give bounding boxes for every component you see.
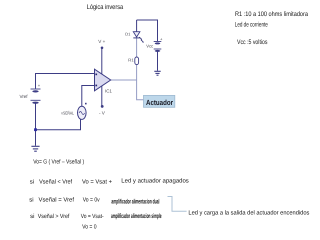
svg-text:V +: V + <box>98 39 105 44</box>
label + of source <box>85 103 87 105</box>
svg-text:Led y carga a la salida del ac: Led y carga a la salida del actuador enc… <box>188 209 309 216</box>
svg-text:amplificador alimentacion dual: amplificador alimentacion dual <box>111 198 159 205</box>
wire Vref bottom to ground rail <box>35 103 37 146</box>
pin dot V+ <box>101 47 104 50</box>
pin dot -V <box>101 105 104 108</box>
resistor R1 <box>135 57 139 65</box>
svg-text:Vref: Vref <box>20 94 29 99</box>
wire Vref top to op-amp non-inverting input <box>36 74 95 89</box>
wire LED cathode to resistor <box>136 38 138 57</box>
LED D1 <box>133 32 144 43</box>
svg-text:R1 :10 a 100 ohms limitadora: R1 :10 a 100 ohms limitadora <box>235 11 308 18</box>
svg-text:IC1: IC1 <box>105 89 112 94</box>
op-amp IC1 <box>95 69 111 91</box>
battery V2 Vref <box>31 89 41 104</box>
wire output node down to actuator <box>137 80 144 100</box>
svg-text:Vo = Vsat-: Vo = Vsat- <box>81 213 104 220</box>
svg-text:Lógica inversa: Lógica inversa <box>87 4 124 11</box>
battery V3 Vcc <box>154 42 162 52</box>
wire bottom rail to source <box>36 120 81 130</box>
svg-text:Led de corriente: Led de corriente <box>235 22 268 29</box>
wire LED string <box>136 20 138 32</box>
svg-text:Vo = 0: Vo = 0 <box>82 224 97 231</box>
svg-text:si: si <box>30 178 34 185</box>
svg-text:D1: D1 <box>125 31 131 36</box>
wire resistor to output node <box>136 65 138 80</box>
pin marker non-inverting <box>95 85 97 87</box>
svg-text:vSEÑAL: vSEÑAL <box>61 111 74 116</box>
svg-text:Vo = Vsat +: Vo = Vsat + <box>82 178 112 185</box>
svg-text:Vcc: Vcc <box>146 44 153 49</box>
svg-text:Vseñal = Vref: Vseñal = Vref <box>39 196 75 203</box>
pin marker inverting <box>95 74 97 76</box>
junction node bottom rail <box>34 128 37 131</box>
svg-text:Vseñal < Vref: Vseñal < Vref <box>39 178 72 185</box>
svg-text:si: si <box>30 213 34 220</box>
ground left <box>31 146 39 151</box>
svg-text:amplificador alimentacion simp: amplificador alimentacion simple <box>111 213 162 220</box>
svg-text:Vseñal > Vref: Vseñal > Vref <box>38 213 70 220</box>
svg-text:Vcc :5 voltios: Vcc :5 voltios <box>237 39 268 46</box>
svg-text:Actuador: Actuador <box>146 98 173 107</box>
svg-text:Led y actuador apagados: Led y actuador apagados <box>121 177 189 184</box>
connector brace <box>168 197 187 212</box>
actuator block <box>144 95 175 107</box>
wire op-amp output <box>111 79 137 81</box>
LED arrows <box>139 37 141 39</box>
source V1 vSEÑAL <box>78 106 87 119</box>
ground right <box>154 71 160 75</box>
wire Vcc battery to ground <box>157 51 159 71</box>
svg-text:Vo = 0v: Vo = 0v <box>83 196 100 203</box>
svg-text:si: si <box>29 196 33 203</box>
svg-text:Vo= G ( Vref – Vseñal ): Vo= G ( Vref – Vseñal ) <box>33 158 84 165</box>
svg-text:- V: - V <box>99 110 106 115</box>
wire top rail LED branch to Vcc branch <box>137 20 158 41</box>
wire source top to op-amp inverting input <box>82 86 95 107</box>
wire op-amp supply rail V+ to -V <box>101 48 103 107</box>
svg-text:R1: R1 <box>128 58 134 63</box>
